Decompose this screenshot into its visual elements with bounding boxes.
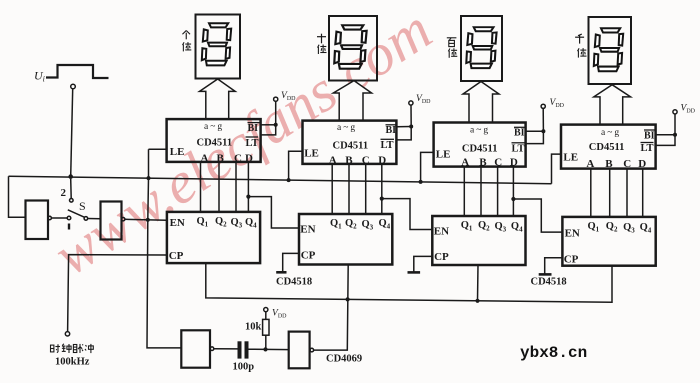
LE bus wire bbox=[9, 176, 552, 184]
pin wires U1-N1 bbox=[200, 162, 202, 212]
arrow DS3 bbox=[463, 82, 499, 123]
svg-text:S: S bbox=[79, 199, 86, 213]
svg-text:CP: CP bbox=[434, 251, 449, 263]
svg-text:a~g: a~g bbox=[470, 126, 490, 136]
svg-text:2: 2 bbox=[61, 187, 67, 199]
svg-text:LE: LE bbox=[563, 152, 578, 164]
label 百位 bbox=[447, 38, 457, 47]
wire LE chip2 stub bbox=[289, 151, 303, 180]
counter N1 box bbox=[167, 212, 260, 263]
display DS3 digit 8 bbox=[466, 27, 496, 68]
input pulse waveform bbox=[46, 65, 109, 78]
switch pole contact bbox=[84, 217, 88, 221]
svg-text:D: D bbox=[638, 158, 646, 170]
svg-text:ybx8.cn: ybx8.cn bbox=[520, 344, 587, 362]
op-chip U4 CD4511 box bbox=[561, 125, 656, 169]
inverter G2 box bbox=[101, 202, 122, 240]
node bus/N3 stub bbox=[475, 299, 479, 303]
node junction Ui/LE bus bbox=[68, 174, 73, 179]
wire Q4 N1 to EN N2 bbox=[248, 197, 299, 228]
svg-text:CP: CP bbox=[564, 254, 579, 266]
Vdd terminal T3 bbox=[541, 104, 545, 108]
svg-text:CD4511: CD4511 bbox=[462, 144, 498, 155]
svg-text:BI: BI bbox=[644, 131, 655, 142]
display DS3 box bbox=[461, 16, 502, 81]
ground G1 (CP N2) bbox=[283, 253, 299, 271]
display DS2 digit 8 bbox=[334, 25, 366, 68]
contact 1 tick label bbox=[68, 224, 70, 230]
wire N3 bottom stub bbox=[477, 265, 480, 301]
Vdd terminal T1 bbox=[274, 97, 278, 101]
display DS1 box bbox=[196, 15, 241, 79]
inverter U5B box bbox=[289, 332, 310, 369]
svg-text:LT: LT bbox=[641, 143, 654, 154]
counter N2 box bbox=[299, 214, 392, 265]
switch contact 2 bbox=[70, 199, 74, 203]
wire LE chip3 stub bbox=[421, 152, 434, 182]
svg-text:CD4511: CD4511 bbox=[197, 138, 233, 149]
node Q4 N1 bbox=[246, 195, 250, 199]
svg-text:CD4069: CD4069 bbox=[326, 354, 362, 365]
node LE chip3 bbox=[419, 180, 423, 184]
svg-text:100p: 100p bbox=[233, 362, 255, 373]
inverter U5A bubble bbox=[210, 347, 214, 351]
node bus/N2 stub bbox=[346, 297, 350, 301]
overline BI U4 bbox=[644, 129, 655, 131]
overline LT U4 bbox=[641, 142, 654, 144]
svg-text:A: A bbox=[586, 158, 594, 170]
svg-text:BI: BI bbox=[248, 123, 259, 134]
wire Q4 N2 to EN N3 bbox=[382, 199, 433, 230]
inverter U5A box bbox=[181, 330, 210, 367]
svg-text:CD4518: CD4518 bbox=[531, 277, 567, 288]
svg-text:BI: BI bbox=[514, 128, 525, 139]
label 个位 bbox=[182, 30, 190, 39]
wire N2 bottom stub / osc output vertical bbox=[314, 265, 348, 351]
switch contact 1 bbox=[67, 216, 71, 220]
node RC bbox=[263, 347, 267, 351]
counter N3 box bbox=[432, 216, 525, 265]
wire G1 output to switch contact 1 bbox=[51, 217, 67, 219]
arrow DS1 bbox=[200, 79, 236, 119]
resistor R1 10k bbox=[263, 319, 269, 335]
svg-text:LT: LT bbox=[246, 138, 259, 149]
terminal Ui bbox=[71, 84, 76, 89]
pin wires U2-N2 bbox=[331, 164, 333, 214]
op-chip U3 CD4511 box bbox=[434, 123, 526, 167]
svg-text:LE: LE bbox=[170, 146, 185, 158]
svg-text:LT: LT bbox=[512, 144, 525, 155]
svg-text:C: C bbox=[623, 158, 631, 170]
label 十位 bbox=[317, 34, 326, 44]
svg-text:a~g: a~g bbox=[601, 128, 621, 138]
svg-text:LE: LE bbox=[436, 149, 451, 161]
ground G3 (CP N4) bbox=[545, 258, 563, 274]
label 时钟脉冲 bbox=[51, 344, 94, 353]
svg-text:CD4511: CD4511 bbox=[333, 141, 369, 152]
arrow DS2 bbox=[333, 81, 371, 121]
pin wires U4-N4 bbox=[590, 169, 592, 217]
svg-text:A: A bbox=[201, 153, 209, 165]
svg-text:LT: LT bbox=[381, 140, 394, 151]
Vdd terminal T4 bbox=[673, 110, 677, 114]
node gate signal bbox=[146, 218, 150, 222]
Vdd terminal T2 bbox=[409, 101, 413, 105]
switch S arm bbox=[68, 210, 85, 217]
wire pole to inverter G2 bbox=[88, 218, 101, 220]
svg-text:CD4518: CD4518 bbox=[276, 277, 312, 288]
svg-text:B: B bbox=[217, 153, 225, 165]
capacitor C1 100p bbox=[238, 341, 242, 358]
svg-text:LE: LE bbox=[304, 148, 319, 160]
wire LE chip4 stub bbox=[552, 154, 562, 184]
svg-text:BI: BI bbox=[386, 125, 397, 136]
op-chip U2 CD4511 box bbox=[303, 121, 397, 164]
ground G2 (CP N3) bbox=[414, 256, 433, 271]
display DS4 box bbox=[589, 17, 632, 84]
svg-text:EN: EN bbox=[565, 228, 580, 240]
node LE chip1 bbox=[147, 176, 151, 180]
svg-text:EN: EN bbox=[434, 226, 449, 238]
svg-text:100kHz: 100kHz bbox=[55, 357, 90, 368]
overline BI U3 bbox=[514, 126, 525, 128]
svg-text:B: B bbox=[605, 158, 613, 170]
node Q4 N3 bbox=[511, 197, 515, 201]
display DS4 digit 8 bbox=[594, 28, 623, 71]
arrow DS4 bbox=[594, 85, 631, 125]
op-chip U1 CD4511 box bbox=[167, 119, 261, 162]
overline BI U1 bbox=[248, 122, 260, 124]
node Q4 N2 bbox=[380, 197, 384, 201]
svg-text:a~g: a~g bbox=[337, 123, 357, 133]
wire G2 output to EN counter1 bbox=[125, 219, 167, 220]
node LE chip2 bbox=[287, 178, 291, 182]
svg-text:CP: CP bbox=[169, 250, 184, 262]
wire LE chip1 stub bbox=[149, 148, 167, 150]
svg-text:CD4511: CD4511 bbox=[589, 142, 625, 153]
overline BI U2 bbox=[386, 124, 397, 126]
svg-text:a~g: a~g bbox=[204, 122, 224, 132]
terminal clock bbox=[65, 332, 69, 336]
svg-text:10k: 10k bbox=[245, 322, 262, 333]
wire U5A out to capacitor bbox=[214, 348, 238, 350]
Vdd terminal osc bbox=[264, 308, 268, 312]
counter N4 box bbox=[562, 217, 655, 266]
svg-text:EN: EN bbox=[300, 224, 315, 236]
display DS2 box bbox=[329, 16, 377, 81]
svg-text:C: C bbox=[234, 153, 242, 165]
overline LT U2 bbox=[381, 138, 395, 140]
wire capacitor to inverter U5B bbox=[249, 348, 289, 350]
inverter G1 box bbox=[26, 201, 49, 240]
bottom bus wire bbox=[206, 263, 612, 302]
wire CP1 to clock terminal bbox=[68, 255, 167, 332]
inverter G1 output bubble bbox=[48, 216, 51, 219]
wire Q4 N3 to EN N4 bbox=[513, 199, 562, 232]
inverter U5B bubble bbox=[310, 348, 314, 352]
wire gate vertical (LE/EN/osc) bbox=[147, 149, 181, 348]
label 千位 bbox=[575, 34, 584, 44]
svg-text:A: A bbox=[461, 157, 469, 169]
overline LT U3 bbox=[512, 142, 525, 144]
display DS1 digit 8 bbox=[202, 23, 231, 65]
svg-text:CP: CP bbox=[301, 250, 316, 262]
inverter G2 output bubble bbox=[122, 218, 125, 221]
overline LT U1 bbox=[246, 136, 259, 138]
svg-text:EN: EN bbox=[170, 217, 185, 229]
pin wires U3-N3 bbox=[463, 167, 465, 216]
wire node to switch contact 2 bbox=[70, 179, 73, 199]
wire Ui terminal down to node bbox=[71, 89, 73, 176]
wire left loop to inverter G1 input bbox=[9, 176, 26, 217]
